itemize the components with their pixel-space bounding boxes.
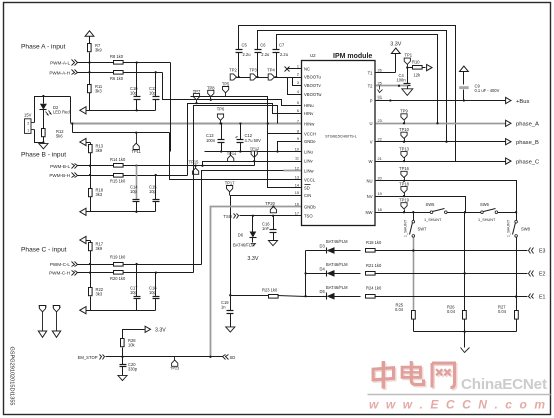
node C9 junction [463, 99, 465, 101]
3.3V label below D6 [247, 256, 258, 262]
svg-text:TP17: TP17 [225, 180, 236, 185]
svg-text:D6: D6 [238, 233, 244, 238]
capacitor C5 [236, 43, 251, 58]
svg-text:TP23: TP23 [170, 367, 179, 371]
svg-text:LINv: LINv [304, 158, 314, 163]
node LED top [42, 95, 44, 97]
ground rail phase C with left arrow [80, 307, 156, 314]
svg-text:IPM module: IPM module [333, 53, 372, 60]
small gnd mark near T2 [377, 86, 382, 99]
resistor R23 [262, 288, 278, 299]
diode anode column [304, 251, 306, 297]
resistor R17 [89, 241, 104, 252]
resistor R21 [366, 263, 382, 275]
wire between SW5 SW6 [448, 211, 481, 213]
node C13 top [220, 122, 222, 124]
wire PWM-C-L riser to LINw row [202, 171, 284, 265]
down arrow below TP21 [52, 331, 60, 337]
svg-text:TP13: TP13 [399, 146, 410, 151]
svg-text:D3: D3 [320, 244, 326, 249]
wire PWM-C-H to R22 [90, 273, 92, 288]
capacitor C12 polarized [236, 124, 262, 152]
LED D2 [40, 104, 71, 116]
test point TP8 [207, 85, 215, 101]
svg-text:0.04: 0.04 [395, 307, 404, 312]
svg-text:9: 9 [297, 137, 299, 141]
output connector phase_A [506, 120, 539, 127]
capacitor C7 [273, 43, 288, 58]
VBOOTw top loop wire [277, 35, 438, 124]
left arrow above R13 [80, 138, 91, 145]
svg-text:3k9: 3k9 [95, 48, 102, 53]
test point TP21 [52, 304, 62, 332]
node C15 top [155, 174, 157, 176]
resistor R24 [366, 286, 382, 299]
connector J1 15V [24, 113, 35, 134]
resistor R6 [110, 71, 124, 81]
section title Phase C - input [21, 247, 67, 254]
capacitor C20 [120, 357, 138, 376]
wire R28 to EM_STOP row [121, 348, 123, 358]
svg-text:8: 8 [297, 130, 299, 134]
node PWM-A-H junction [88, 71, 90, 73]
svg-text:1_SHUNT: 1_SHUNT [507, 219, 511, 237]
svg-text:SD: SD [230, 355, 236, 360]
wire PWM-B-H to R18 [90, 176, 92, 189]
ground arrow below C20 [118, 375, 127, 380]
svg-text:D5: D5 [320, 289, 326, 294]
svg-text:15: 15 [295, 191, 299, 195]
svg-text:16: 16 [295, 202, 299, 206]
svg-text:HINv: HINv [304, 111, 314, 116]
IPM module U2 outline [302, 53, 376, 226]
svg-text:TP5: TP5 [222, 81, 230, 86]
svg-text:3k9: 3k9 [96, 148, 103, 153]
resistor R26 [447, 304, 466, 319]
test point TP4 [267, 68, 275, 81]
svg-text:BAT46/FLM: BAT46/FLM [326, 285, 348, 290]
svg-text:1: 1 [27, 129, 29, 133]
wire PWM-A-L riser to LINu row [170, 63, 172, 152]
capacitor C10 [130, 86, 141, 99]
svg-text:23: 23 [378, 119, 382, 123]
svg-text:C7: C7 [279, 43, 285, 48]
svg-text:HINw: HINw [304, 121, 315, 126]
output connector phase_B [506, 139, 539, 146]
svg-text:E2: E2 [539, 272, 545, 278]
svg-text:TP14: TP14 [227, 151, 237, 156]
svg-text:+Bus: +Bus [516, 99, 529, 105]
node C11 top [155, 71, 157, 73]
wire R10 to connector arrow [423, 67, 426, 69]
resistor R27 [498, 304, 518, 319]
resistor R13 [89, 143, 104, 154]
test point TP9 [400, 109, 408, 124]
wire TP2 to VBOOTu pin [237, 77, 302, 79]
svg-text:2: 2 [297, 73, 299, 77]
svg-text:100n: 100n [397, 77, 407, 82]
resistor R7 [88, 43, 103, 53]
svg-text:NV: NV [367, 194, 373, 199]
wire D4 to R21 [335, 273, 361, 275]
svg-text:PWM-B-L: PWM-B-L [50, 164, 70, 169]
test point TP23 [170, 357, 179, 371]
svg-text:LINu: LINu [304, 149, 314, 154]
svg-text:0.04: 0.04 [447, 309, 456, 314]
svg-text:11: 11 [295, 156, 299, 160]
svg-text:STGIB15CH60TS-L: STGIB15CH60TS-L [325, 135, 357, 139]
svg-text:TP3: TP3 [249, 68, 257, 73]
test point TP12 [250, 146, 260, 157]
R27 column [515, 238, 517, 311]
wire C5 to TP2 row [238, 53, 240, 79]
R26 column [464, 213, 466, 311]
test point TP15 [189, 160, 200, 175]
wire PWM-A-H to R11 [89, 73, 91, 85]
power arrow above R7 [85, 31, 94, 45]
VBOOTv top loop wire [258, 31, 447, 142]
connector EM_STOP [78, 355, 105, 360]
svg-text:R18 1k0: R18 1k0 [366, 240, 382, 245]
svg-text:TP6: TP6 [217, 107, 225, 112]
connector PWM-C-L [50, 262, 78, 268]
R25 column gray [412, 238, 414, 311]
svg-text:V: V [370, 140, 373, 145]
svg-text:R23 1k0: R23 1k0 [262, 288, 278, 293]
wire PWM-A-L to PWM-A-H [89, 63, 91, 73]
svg-text:5k6: 5k6 [56, 134, 63, 139]
svg-text:LED Red: LED Red [53, 110, 70, 115]
test point TP10 [399, 127, 410, 142]
node C17 top [135, 263, 137, 265]
svg-text:10p: 10p [149, 91, 157, 96]
wire E3 row left [306, 250, 327, 252]
down arrow below TP22 [38, 331, 46, 337]
wire R7 to PWM-A-L [89, 53, 91, 63]
wire NV row [376, 195, 466, 213]
wire 15V loop to VCC rail [70, 97, 72, 124]
test point TP18 [399, 181, 410, 196]
test point TP20 [265, 201, 276, 213]
svg-text:18: 18 [378, 208, 382, 212]
capacitor C14 [130, 185, 140, 213]
wire R11 to ground rail A [89, 93, 91, 111]
node PWM-B-L junction [89, 165, 91, 167]
svg-text:R20 1k0: R20 1k0 [110, 276, 126, 281]
svg-text:3k3: 3k3 [96, 292, 103, 297]
svg-text:U2: U2 [310, 53, 316, 58]
switch SW6 [478, 202, 498, 222]
connector SD out [223, 355, 236, 360]
switch SW7 [404, 213, 428, 238]
wire PWM-B-L to PWM-B-H [90, 166, 92, 176]
wire C10 column [136, 63, 138, 112]
wire 15V pin2 loop up [35, 97, 71, 123]
node PWM-C-L junction [89, 263, 91, 265]
wire E1 row left [304, 295, 326, 297]
output connector phase_C [506, 158, 540, 165]
resistor R11 [88, 84, 103, 94]
svg-text:GND: GND [377, 96, 382, 98]
resistor R12 [42, 129, 65, 139]
svg-text:0.1 uF - 400V: 0.1 uF - 400V [475, 88, 500, 93]
svg-text:10k: 10k [128, 342, 136, 347]
resistor R18 [89, 188, 104, 198]
wire PWM-C-L to PWM-C-H [90, 265, 92, 273]
connector TSO [223, 214, 238, 219]
capacitor C9 [459, 83, 499, 100]
svg-text:3.3V: 3.3V [247, 256, 258, 262]
svg-text:R15 1k0: R15 1k0 [110, 179, 126, 184]
svg-text:NC: NC [304, 66, 310, 71]
svg-text:7: 7 [297, 119, 299, 123]
svg-text:W: W [369, 159, 373, 164]
wire VCCH drop [267, 122, 302, 133]
svg-text:10p: 10p [130, 91, 138, 96]
resistor R15 [110, 174, 126, 184]
node PWM-A-L junction [88, 61, 90, 63]
wire R18 to ground rail B [90, 197, 92, 212]
diode D3 [320, 239, 349, 254]
node D6 junction [252, 215, 254, 217]
svg-text:TP1: TP1 [405, 53, 413, 58]
VBOOTu top loop wire [239, 26, 456, 162]
wire TP1 junction R10 row [406, 66, 412, 68]
wire D5 to R24 [335, 296, 361, 298]
diode D5 [320, 285, 349, 300]
left arrow above R17 [80, 236, 91, 243]
test point TP1 [404, 53, 413, 68]
svg-text:NW: NW [366, 210, 373, 215]
test point TP6 [217, 107, 225, 125]
test point TP5 [222, 81, 230, 96]
IPM left pin names and numbers [295, 64, 323, 218]
diode D4 [320, 262, 349, 277]
wire C7 column [275, 53, 277, 79]
svg-text:TP8: TP8 [207, 85, 215, 90]
svg-text:Phase C - input: Phase C - input [21, 247, 67, 254]
svg-text:NU: NU [366, 179, 372, 184]
capacitor C19 [221, 296, 234, 327]
wire D3 to R18s [335, 250, 361, 252]
wire E2 row left [306, 273, 327, 275]
diode D6 BAT46 to 3p3V [233, 232, 257, 248]
wire CIN to R23 [231, 295, 269, 297]
svg-text:GSPG29102015DI1355: GSPG29102015DI1355 [9, 346, 15, 405]
node C16 junction [272, 215, 274, 217]
node C18 top [155, 271, 157, 273]
wire TP1 to C4 [407, 68, 409, 84]
wire TP4 to VBOOTw pin [275, 78, 302, 95]
capacitor C6 [255, 43, 270, 58]
svg-text:PWM-A-L: PWM-A-L [50, 61, 70, 66]
svg-text:5: 5 [297, 101, 299, 105]
svg-text:330p: 330p [128, 367, 138, 372]
svg-text:Phase A - input: Phase A - input [21, 44, 66, 51]
resistor R22 [89, 287, 104, 297]
svg-text:4: 4 [297, 90, 299, 94]
wire VCCL riser [170, 133, 302, 180]
wire W row phase_C [376, 160, 506, 162]
capacitor C13 [206, 124, 225, 152]
3.3V feed for R28 [123, 326, 167, 338]
node C12 top [239, 122, 241, 124]
svg-text:D4: D4 [320, 266, 326, 271]
watermark www.ECCN.com [369, 398, 545, 412]
test point TP19 [399, 197, 410, 212]
resistor R10 [412, 59, 422, 77]
svg-text:10p: 10p [130, 290, 138, 295]
wire R27 to rail [516, 320, 518, 332]
svg-text:2.2u: 2.2u [243, 52, 251, 57]
wire C11 column [155, 73, 157, 111]
wire rail to ground [464, 332, 466, 348]
svg-text:TP18: TP18 [399, 181, 410, 186]
svg-text:3k3: 3k3 [96, 192, 103, 197]
wire E1 row right [375, 295, 528, 297]
svg-text:TP12: TP12 [250, 146, 260, 151]
ground rail phase B with left arrow [80, 208, 156, 215]
connector PWM-C-H [49, 271, 77, 276]
svg-text:R8 1k0: R8 1k0 [110, 54, 124, 59]
ground rail under C13 C12 [205, 150, 302, 152]
svg-text:GNDe: GNDe [304, 139, 316, 144]
svg-text:3.3V: 3.3V [390, 42, 401, 48]
connector PWM-A-L [50, 60, 77, 66]
svg-text:VBOOTu: VBOOTu [304, 75, 322, 80]
node PWM-B-H junction [89, 174, 91, 176]
resistor R20 [110, 271, 126, 282]
resistor R19 [110, 255, 126, 267]
svg-text:TP16: TP16 [399, 166, 410, 171]
wire E2 row right [375, 272, 528, 274]
test point TP14 [227, 151, 237, 161]
node CIN junction [229, 294, 231, 296]
svg-text:1_SHUNT: 1_SHUNT [404, 219, 408, 237]
wire R26 to rail [464, 320, 466, 332]
wire TP3 to VBOOTv pin [257, 78, 302, 86]
wire R23 to diode column [278, 296, 306, 297]
svg-text:HINu: HINu [304, 103, 314, 108]
wire TSO to C16 [273, 216, 275, 230]
svg-text:2.2u: 2.2u [280, 52, 288, 57]
wire PWM-B-H row [78, 175, 188, 177]
GNDb gray row and riser [209, 207, 301, 358]
svg-text:PWM-A-H: PWM-A-H [49, 70, 70, 75]
svg-text:E3: E3 [539, 249, 545, 255]
wire PWM-C-H row [78, 272, 194, 274]
connector E1 [529, 294, 546, 301]
wire TSO to D6 [252, 216, 254, 232]
svg-text:SW8: SW8 [521, 227, 531, 232]
svg-text:TP20: TP20 [265, 201, 276, 206]
svg-text:R21 1k0: R21 1k0 [366, 263, 382, 268]
svg-text:21: 21 [378, 157, 382, 161]
svg-text:4.7u 50V: 4.7u 50V [245, 138, 262, 143]
wire SW6 to NU corner [498, 211, 518, 213]
wire SD net from TP5 to pin SD [191, 97, 302, 188]
svg-text:15V: 15V [24, 113, 32, 118]
svg-text:0.04: 0.04 [498, 309, 507, 314]
ground arrow below C4 [402, 89, 413, 96]
svg-text:2.2u: 2.2u [261, 52, 269, 57]
svg-text:CIN: CIN [304, 193, 311, 198]
svg-text:13: 13 [295, 175, 299, 179]
test point TP7 [193, 89, 201, 104]
wire EM_STOP row [106, 356, 223, 358]
svg-text:1: 1 [297, 64, 299, 68]
svg-text:1_SHUNT: 1_SHUNT [478, 218, 496, 222]
resistor R28 [121, 338, 137, 348]
resistor R25 [395, 303, 415, 320]
wire PWM-B-L row [78, 165, 255, 167]
svg-text:22: 22 [378, 138, 382, 142]
wire PWM-C-H riser to HINw row [194, 106, 278, 273]
wire T1 row [376, 72, 396, 74]
svg-text:T1: T1 [368, 71, 374, 76]
capacitor C15 [149, 176, 160, 212]
resistor R19s [366, 240, 382, 252]
svg-text:C6: C6 [260, 43, 266, 48]
NC pin 1 wire with x mark [285, 67, 302, 72]
wire 15V pin1 to ground node [35, 130, 44, 143]
svg-text:2: 2 [27, 121, 29, 125]
capacitor C4 [397, 73, 411, 86]
test point TP16 [399, 166, 410, 181]
svg-text:T2: T2 [368, 84, 374, 89]
svg-text:GNDb: GNDb [304, 204, 316, 209]
ground arrow below C19 [226, 327, 235, 332]
svg-text:TP2: TP2 [229, 68, 237, 73]
svg-text:SW7: SW7 [418, 227, 428, 232]
wire PWM-B-H riser to HINv row [188, 104, 302, 176]
node PWM-C-H junction [89, 271, 91, 273]
svg-text:TSO: TSO [304, 214, 313, 219]
output arrow after R10 [427, 65, 432, 71]
svg-text:R6 1k0: R6 1k0 [110, 76, 124, 81]
wire T2 row gray [376, 85, 408, 87]
wire P row to +Bus [376, 99, 506, 101]
wire E3 row right [375, 249, 528, 251]
svg-text:BAT46/FLM: BAT46/FLM [326, 239, 348, 244]
svg-text:E1: E1 [539, 294, 545, 300]
ground arrow below C16 [268, 241, 277, 246]
wire PWM-A-H riser to HINu row [163, 73, 302, 106]
test point TP3 [249, 68, 257, 81]
svg-text:SW6: SW6 [480, 202, 490, 207]
svg-text:17: 17 [295, 212, 299, 216]
svg-text:3k9: 3k9 [96, 246, 103, 251]
svg-text:10p: 10p [149, 189, 157, 194]
ground rail phase A with left arrow [80, 107, 156, 114]
wire R25 to rail [413, 320, 415, 332]
svg-text:R10: R10 [412, 59, 420, 64]
svg-text:1_SHUNT: 1_SHUNT [424, 218, 442, 222]
VCC gray rail to IPM pin HINw [71, 123, 302, 125]
wire PWM-B-L riser to LINv row [203, 160, 302, 166]
3.3V supply at T1 [390, 42, 401, 73]
svg-text:phase_C: phase_C [516, 159, 539, 165]
wire C4 to ground [407, 86, 409, 89]
wire R17 to PWM-C-L [90, 251, 92, 265]
IPM right pin names and numbers [366, 69, 382, 215]
svg-text:10p: 10p [130, 189, 138, 194]
connector PWM-B-H [49, 173, 77, 179]
svg-text:PWM-B-H: PWM-B-H [49, 173, 70, 178]
test point TP17 [225, 180, 236, 195]
svg-text:P: P [370, 98, 373, 103]
output connector +Bus [506, 97, 530, 104]
